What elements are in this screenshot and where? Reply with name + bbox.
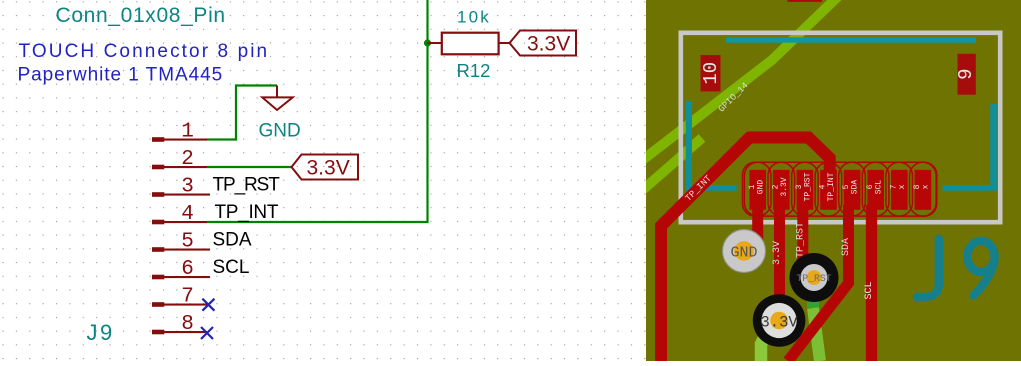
svg-text:R12: R12	[457, 60, 491, 81]
svg-text:GND: GND	[259, 121, 301, 142]
svg-text:6: 6	[181, 258, 194, 281]
red trace TP_INT route	[661, 138, 830, 362]
power label 3.3V at pin2	[292, 155, 359, 180]
red trace pad3 TP_RST	[797, 205, 808, 262]
svg-text:3: 3	[181, 176, 194, 199]
junction	[424, 39, 431, 46]
red trace pad1 GND	[752, 205, 763, 242]
svg-text:SCL: SCL	[864, 281, 875, 299]
wire pin1 to GND	[207, 86, 278, 140]
left teal trace L	[686, 101, 692, 188]
svg-text:J9: J9	[87, 320, 115, 345]
pin 7	[152, 286, 207, 309]
pad 6	[867, 170, 884, 210]
svg-text:Paperwhite 1 TMA445: Paperwhite 1 TMA445	[18, 65, 224, 86]
red top bar	[788, 0, 823, 2]
svg-text:TP_RST: TP_RST	[796, 273, 831, 284]
svg-text:3.3V: 3.3V	[527, 33, 570, 56]
pin 8	[152, 313, 207, 336]
3.3V via	[753, 294, 806, 347]
svg-text:1: 1	[181, 121, 194, 144]
svg-text:10: 10	[700, 62, 722, 85]
TP_RST via	[790, 253, 839, 302]
gpio_14 back-copper diagonal trace	[640, 0, 853, 162]
resistor R12	[428, 42, 442, 44]
red trace pad5 SDA	[788, 205, 849, 361]
power label 3.3V at resistor	[510, 31, 577, 56]
svg-text:SCL: SCL	[213, 257, 250, 278]
svg-text:TP_RST: TP_RST	[795, 222, 806, 258]
red trace pad2 3.3V	[774, 205, 785, 318]
svg-text:SDA: SDA	[213, 230, 252, 251]
svg-text:TOUCH Connector 8 pin: TOUCH Connector 8 pin	[19, 41, 270, 62]
svg-text:4: 4	[181, 203, 194, 226]
red trace pad6 SCL	[866, 205, 877, 361]
pad 5	[844, 170, 861, 210]
svg-text:8: 8	[181, 313, 194, 336]
pad 3	[797, 170, 814, 210]
svg-text:GND: GND	[756, 180, 765, 195]
second diagonal green trace	[638, 138, 702, 194]
pin 6	[152, 258, 210, 281]
svg-text:3.3V: 3.3V	[760, 314, 798, 332]
svg-text:10k: 10k	[457, 8, 491, 27]
pad 2	[773, 170, 790, 210]
top cyan trace	[726, 37, 976, 42]
svg-text:x: x	[922, 184, 931, 189]
silk ref 10 box	[701, 55, 721, 92]
pin 1	[152, 121, 207, 144]
green trace from 3.3V via	[764, 320, 779, 336]
pad 4	[820, 170, 837, 210]
courtyard gray rectangle	[681, 33, 1000, 222]
svg-text:5: 5	[181, 231, 194, 254]
pad stadium outlines	[744, 162, 936, 216]
right teal trace L	[990, 104, 997, 188]
pad 1	[749, 170, 766, 210]
pin 3	[152, 176, 210, 199]
no-connect pin 8	[201, 327, 213, 339]
svg-text:x: x	[898, 184, 907, 189]
svg-text:SCL: SCL	[874, 180, 883, 195]
svg-text:3.3V: 3.3V	[780, 177, 789, 196]
silk ref 9 box	[958, 54, 976, 95]
green trace from TP_RST via	[807, 285, 819, 308]
ground symbol	[262, 86, 292, 111]
svg-text:SDA: SDA	[851, 180, 860, 195]
svg-text:2: 2	[181, 148, 194, 171]
pin 5	[152, 231, 210, 254]
svg-text:TP_RST: TP_RST	[213, 175, 281, 196]
svg-text:GND: GND	[730, 245, 757, 262]
silkscreen J9	[917, 239, 995, 297]
footprint pads outline	[743, 162, 937, 216]
no-connect pin 7	[202, 299, 214, 311]
svg-text:TP_INT: TP_INT	[827, 172, 836, 201]
svg-text:Conn_01x08_Pin: Conn_01x08_Pin	[56, 4, 226, 27]
pad 7	[891, 170, 908, 210]
GND test pad circle	[723, 230, 766, 273]
svg-text:TP_RST: TP_RST	[804, 172, 813, 201]
pad 8	[915, 170, 932, 210]
svg-text:7: 7	[181, 286, 194, 309]
svg-text:3.3V: 3.3V	[772, 241, 783, 265]
pin 4	[152, 203, 207, 226]
svg-text:TP_INT: TP_INT	[215, 202, 279, 223]
svg-text:9: 9	[955, 68, 977, 79]
svg-text:SDA: SDA	[841, 238, 852, 256]
wire pin4 TP_INT to resistor	[207, 0, 428, 222]
pcb background	[646, 0, 1021, 361]
pin 2	[152, 148, 207, 171]
wire pin2 to 3.3V	[207, 166, 292, 168]
svg-text:3.3V: 3.3V	[307, 157, 350, 180]
